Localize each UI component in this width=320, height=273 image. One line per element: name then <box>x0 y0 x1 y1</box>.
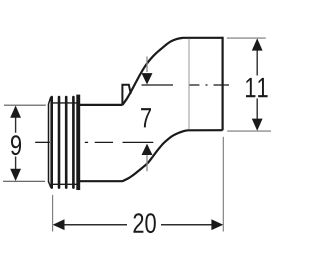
dim 11 arrow up <box>252 38 263 50</box>
dim 7 arrow up onto inlet centerline <box>142 144 153 155</box>
dim 9 dimension line <box>15 107 17 180</box>
dim 7 leader tail lower <box>146 155 148 171</box>
dim 11 extension line bottom <box>227 130 271 132</box>
dim 9 label <box>11 135 21 155</box>
dim 9 arrow up <box>10 106 21 118</box>
seal fin 2 <box>58 96 61 189</box>
pipe seam line at bend/outlet joint <box>188 39 190 130</box>
dim 11 extension line top <box>227 37 266 39</box>
seal fin 1 <box>50 96 53 189</box>
seal valley top lines <box>53 102 77 104</box>
seal left face edge <box>48 105 50 182</box>
dim 11 label <box>246 78 255 97</box>
dim 20 arrow right <box>211 219 223 230</box>
dim 20 extension line left <box>52 195 54 232</box>
dim 20 arrow left <box>53 219 65 230</box>
dim 9 arrow down <box>10 169 21 181</box>
outlet bottom edge and lower S-curve <box>122 130 222 181</box>
inlet centerline dash-dot <box>85 141 154 143</box>
dim 7 leader tail upper <box>146 57 148 73</box>
dim 9 extension line top <box>4 104 46 106</box>
dim 20 extension line right <box>222 137 224 232</box>
outlet centerline dash-dot <box>190 84 230 86</box>
dim 11 dimension line <box>256 40 258 130</box>
seal collar flange <box>76 95 80 190</box>
dim 7 arrow down onto outlet centerline <box>142 73 153 84</box>
body outline upper S-curve and outlet top edge <box>123 38 223 105</box>
seal bottom chamfer <box>48 181 51 187</box>
seal top chamfer <box>48 97 50 105</box>
dim 20 dimension line <box>54 224 222 226</box>
alignment tab on bend <box>122 85 130 105</box>
inlet centerline left tick <box>35 141 50 143</box>
dim 9 extension line bottom <box>3 180 45 182</box>
socket tube bottom edge <box>80 180 123 182</box>
outlet pipe right end edge <box>222 37 224 131</box>
seal valley bottom lines <box>53 183 77 185</box>
socket tube top edge <box>80 104 123 106</box>
outlet centerline solid segment <box>142 84 174 86</box>
dim 11 arrow down <box>252 119 263 131</box>
dim 20 label <box>133 213 143 233</box>
dim 7 label <box>141 108 151 127</box>
seal fin 4 <box>72 96 75 189</box>
seal fin 3 <box>65 96 68 189</box>
